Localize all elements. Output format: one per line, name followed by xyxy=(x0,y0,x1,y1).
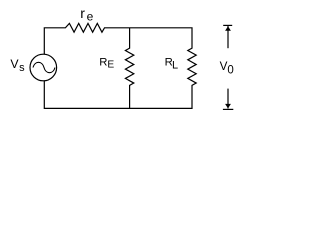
svg-text:V0: V0 xyxy=(220,60,234,77)
svg-text:RL: RL xyxy=(165,57,178,72)
svg-text:RE: RE xyxy=(99,57,114,71)
svg-text:Vs: Vs xyxy=(10,57,25,74)
svg-text:re: re xyxy=(80,5,93,24)
